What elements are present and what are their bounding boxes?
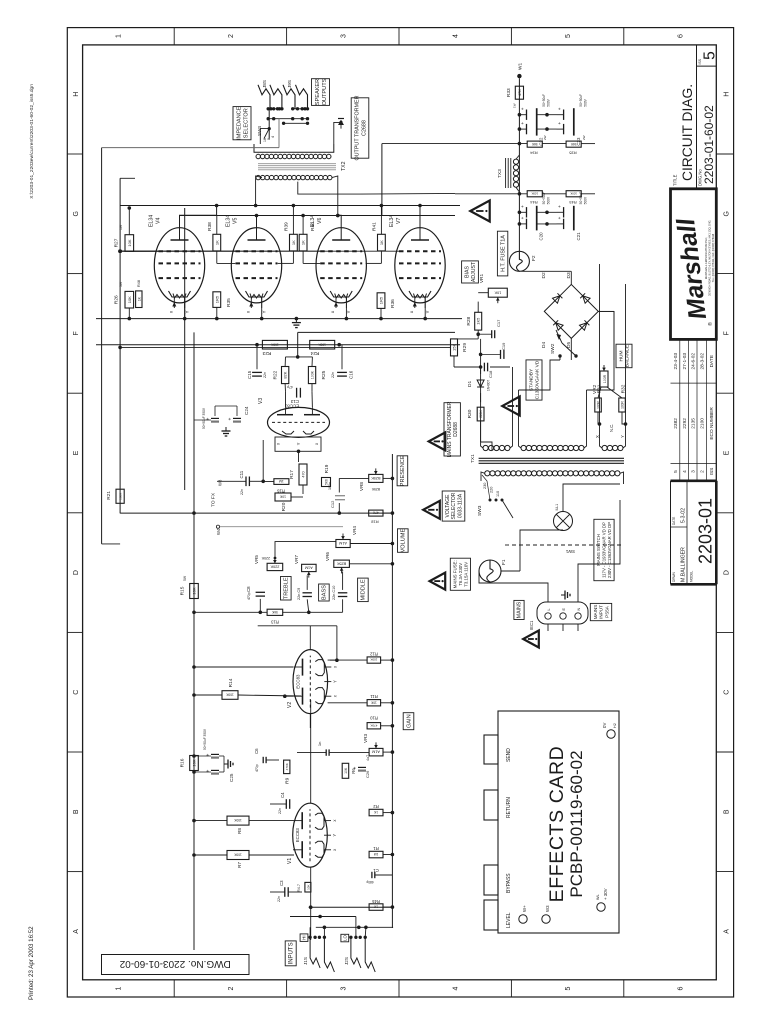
bridge wires <box>570 271 572 284</box>
capacitor C13 47p <box>296 388 298 398</box>
svg-text:500V: 500V <box>584 196 588 204</box>
treble pot VR5 220K <box>267 563 283 570</box>
svg-text:PCBP-00119-60-02: PCBP-00119-60-02 <box>567 750 586 897</box>
svg-text:100K: 100K <box>270 342 278 346</box>
svg-text:4: 4 <box>453 34 460 38</box>
svg-text:R28: R28 <box>466 316 472 325</box>
diode D1 <box>477 380 484 387</box>
svg-text:500V: 500V <box>584 98 588 106</box>
svg-text:G: G <box>73 211 80 216</box>
svg-text:R9: R9 <box>285 777 291 783</box>
capacitor C6 470p <box>262 757 264 763</box>
svg-text:4: 4 <box>682 470 688 473</box>
bridge rectifier D2-D5 <box>544 284 598 338</box>
grid bias feed stubs <box>120 250 158 252</box>
valve V2 ECC83 <box>293 650 328 714</box>
svg-text:R34: R34 <box>530 151 538 156</box>
resistor R32 100R <box>619 398 626 412</box>
resistor R16 1M <box>274 479 289 485</box>
svg-text:DATE: DATE <box>709 355 715 367</box>
svg-text:MAINS: MAINS <box>517 601 523 618</box>
resistor R1 1M <box>369 851 383 858</box>
svg-text:C8: C8 <box>246 586 251 592</box>
svg-text:DWG.No. 2203-01-60-02: DWG.No. 2203-01-60-02 <box>119 958 231 969</box>
resistor R2 1K <box>369 809 383 816</box>
svg-text:1: 1 <box>116 34 123 38</box>
warning triangle presence-side <box>423 501 440 519</box>
TX2 secondary bracket <box>254 144 334 152</box>
svg-text:R10: R10 <box>369 716 377 721</box>
mains switch SW1 dashed link <box>505 544 624 546</box>
svg-text:C25: C25 <box>229 773 234 782</box>
V2 pin wires <box>328 659 368 661</box>
svg-text:3: 3 <box>340 986 347 990</box>
label box MAINS SWITCH <box>594 519 614 580</box>
svg-text:A1M: A1M <box>372 750 380 754</box>
svg-text:SW3: SW3 <box>477 505 483 516</box>
svg-text:A1M: A1M <box>305 566 313 570</box>
svg-text:H: H <box>724 92 731 97</box>
capacitor C3 22n <box>284 887 286 897</box>
standby switch SW2 <box>558 354 561 357</box>
svg-text:x: x <box>332 819 337 822</box>
HT riser resistors R34 R35 <box>527 141 542 147</box>
svg-text:470K: 470K <box>285 763 289 770</box>
svg-text:5: 5 <box>702 51 719 60</box>
svg-text:x: x <box>332 848 337 851</box>
svg-text:DRWN: DRWN <box>672 571 676 582</box>
TX1 heater wires <box>599 264 601 424</box>
svg-text:W3: W3 <box>218 479 223 486</box>
svg-text:10K: 10K <box>192 587 197 594</box>
resistor R14 100K <box>222 691 238 700</box>
middle pot VR6 B25K <box>334 560 350 567</box>
presence pot VR8 <box>369 474 383 482</box>
svg-text:C13: C13 <box>290 399 299 404</box>
svg-text:ECC83: ECC83 <box>295 674 300 689</box>
svg-text:A: A <box>73 929 80 934</box>
aux heater line <box>184 208 186 490</box>
svg-text:1K: 1K <box>214 240 219 245</box>
svg-text:C15: C15 <box>247 370 252 379</box>
HT fuse F2 <box>509 251 529 271</box>
title block drawn/model box 2203-01 <box>671 583 717 586</box>
pad W1 <box>517 74 521 78</box>
TX1 secondary windings <box>483 445 488 450</box>
svg-text:5: 5 <box>565 34 572 38</box>
svg-text:R45: R45 <box>371 899 379 904</box>
svg-text:1M: 1M <box>373 852 378 856</box>
svg-text:TO FX: TO FX <box>211 492 217 507</box>
resistor R45 1K <box>369 904 383 911</box>
label box IMPEDANCE SELECTOR <box>233 107 251 140</box>
svg-text:F: F <box>724 331 731 335</box>
label box OUTPUT TRANSFORMER C2688 <box>351 98 369 158</box>
svg-text:50+50uF: 50+50uF <box>579 94 583 107</box>
capacitors C20 C21 50+50uF 500V <box>519 211 526 213</box>
svg-text:1K: 1K <box>291 240 296 245</box>
phase splitter V3 ECC83 <box>268 407 330 437</box>
svg-text:+: + <box>353 766 359 769</box>
presence node line <box>120 512 392 514</box>
svg-text:R17: R17 <box>289 470 295 479</box>
svg-text:R15: R15 <box>180 586 186 595</box>
label box MIDDLE <box>358 578 369 602</box>
tone stack wires <box>259 599 261 612</box>
svg-text:110: 110 <box>496 491 500 497</box>
svg-text:V4: V4 <box>156 218 162 224</box>
tone to V2 wire <box>258 625 337 627</box>
svg-text:Y: Y <box>185 310 190 313</box>
svg-text:VR1: VR1 <box>479 274 485 284</box>
capacitor C17 <box>491 330 493 338</box>
DWG number box left edge <box>102 955 250 975</box>
svg-text:A: A <box>724 929 731 934</box>
svg-text:22n: 22n <box>263 372 267 378</box>
svg-text:10K: 10K <box>494 290 501 294</box>
svg-text:27-1-03: 27-1-03 <box>682 353 688 370</box>
svg-text:100K: 100K <box>119 493 123 500</box>
svg-text:R23: R23 <box>262 350 271 356</box>
svg-text:MODEL: MODEL <box>690 570 694 582</box>
capacitor C9 22n <box>303 596 312 598</box>
svg-text:50+50uF: 50+50uF <box>542 94 546 107</box>
svg-text:10K: 10K <box>127 239 132 246</box>
svg-text:ADJUST: ADJUST <box>471 261 477 282</box>
resistor R18 47K <box>369 510 383 516</box>
svg-text:2W: 2W <box>543 135 547 140</box>
svg-text:2135: 2135 <box>691 418 697 429</box>
svg-text:3: 3 <box>691 470 697 473</box>
svg-text:C1350VGAAK VD: C1350VGAAK VD <box>535 360 541 399</box>
capacitor C4 22n <box>285 799 287 809</box>
svg-text:x: x <box>314 442 319 445</box>
svg-text:N.C.: N.C. <box>609 424 614 432</box>
TX2 core <box>258 169 336 171</box>
svg-text:R40: R40 <box>310 222 316 231</box>
svg-text:2100: 2100 <box>700 418 706 429</box>
svg-text:R35: R35 <box>569 151 577 156</box>
svg-text:Printed: 23 Apr 2003 16:52: Printed: 23 Apr 2003 16:52 <box>28 926 35 1000</box>
svg-text:G: G <box>724 211 731 216</box>
svg-text:1K: 1K <box>137 296 141 301</box>
svg-text:R27: R27 <box>113 238 119 247</box>
svg-text:H: H <box>73 92 80 97</box>
svg-text:EFFECTS CARD: EFFECTS CARD <box>546 746 568 903</box>
svg-text:R19: R19 <box>324 464 330 473</box>
svg-text:L: L <box>547 608 551 610</box>
svg-text:5W: 5W <box>119 281 123 287</box>
svg-text:V3: V3 <box>258 398 264 404</box>
svg-text:2: 2 <box>228 986 235 990</box>
volume pot VR4 <box>336 540 350 548</box>
svg-text:R44: R44 <box>530 200 538 205</box>
resistor R16b 10K <box>190 756 199 771</box>
svg-text:x: x <box>409 310 414 313</box>
svg-text:R41: R41 <box>371 222 377 231</box>
speaker jack J8S <box>258 85 270 109</box>
svg-text:ILL1: ILL1 <box>555 504 559 511</box>
svg-text:R26: R26 <box>113 295 119 304</box>
svg-text:2382: 2382 <box>673 418 679 429</box>
svg-text:F1: F1 <box>501 559 507 565</box>
anode lead V5 <box>256 216 258 241</box>
svg-text:2: 2 <box>228 34 235 38</box>
svg-text:C20: C20 <box>539 232 544 241</box>
feedback line <box>392 512 430 514</box>
svg-text:ECC83: ECC83 <box>284 404 299 409</box>
svg-text:100R: 100R <box>621 400 625 408</box>
svg-text:C1: C1 <box>373 868 379 873</box>
svg-text:TX1: TX1 <box>470 454 476 463</box>
svg-text:117V - C1933VGNAR VD DP: 117V - C1933VGNAR VD DP <box>602 522 607 578</box>
label box MAINS INPUT PS5A <box>590 603 611 620</box>
svg-text:220K: 220K <box>261 556 270 560</box>
svg-text:J9S: J9S <box>287 80 292 88</box>
mains fuse F1 <box>479 560 501 582</box>
svg-text:10K: 10K <box>279 495 286 499</box>
CT riser resistors R44 R45 <box>527 191 542 197</box>
TX1 HT secondary wires <box>519 360 561 390</box>
svg-text:V2: V2 <box>287 702 293 708</box>
svg-text:SELECTOR: SELECTOR <box>451 492 457 519</box>
power pentode V6 EL34 <box>316 228 366 303</box>
warning triangle voltage selector <box>429 432 446 450</box>
capacitor C16 22n <box>337 375 347 377</box>
svg-text:x: x <box>332 694 337 697</box>
title block Marshall logo <box>671 189 717 340</box>
svg-text:+: + <box>557 205 562 208</box>
label box VOLTAGE SELECTOR <box>442 491 465 521</box>
svg-text:C26: C26 <box>365 770 370 778</box>
svg-text:Y: Y <box>425 310 430 313</box>
svg-text:ECO NUMBER: ECO NUMBER <box>709 407 715 440</box>
svg-text:10K: 10K <box>127 296 132 303</box>
svg-text:R14: R14 <box>228 678 234 687</box>
svg-text:R18: R18 <box>371 520 379 525</box>
svg-text:R36: R36 <box>390 299 396 308</box>
svg-text:BASS: BASS <box>322 585 328 600</box>
svg-text:B: B <box>724 809 731 814</box>
svg-text:x: x <box>276 442 281 445</box>
capacitor C25 50+50uF <box>211 772 219 774</box>
resistor R10 470K <box>367 723 381 729</box>
svg-text:+: + <box>520 216 525 219</box>
svg-text:R13: R13 <box>270 620 278 625</box>
svg-text:+: + <box>228 417 234 420</box>
svg-text:Y: Y <box>262 310 267 313</box>
svg-text:LO: LO <box>342 934 347 940</box>
resistor R40 1K <box>299 234 307 251</box>
svg-text:100K: 100K <box>318 342 326 346</box>
label box MAINS TRANSFORMER <box>444 403 460 456</box>
svg-text:Y: Y <box>296 442 301 445</box>
effects card pad W+ <box>519 915 527 923</box>
svg-text:Y: Y <box>620 435 625 438</box>
svg-text:RETURN: RETURN <box>506 797 512 818</box>
label box BASS <box>319 584 330 601</box>
svg-text:VOLTAGE: VOLTAGE <box>445 494 451 518</box>
svg-text:D: D <box>724 570 731 575</box>
effects card pad H2 0V <box>607 730 615 738</box>
svg-text:1R5: 1R5 <box>379 296 384 304</box>
svg-text:C4: C4 <box>280 792 285 798</box>
svg-text:100R: 100R <box>603 374 607 383</box>
resistor R13 56K <box>267 609 283 615</box>
cathode resistor R36 <box>377 293 385 309</box>
power pentode V4 EL34 <box>154 228 204 303</box>
V3 pin box <box>275 437 321 451</box>
TX2 primary centre tap <box>298 182 455 195</box>
HT feed line <box>518 78 520 251</box>
svg-text:B25K: B25K <box>371 476 381 480</box>
svg-text:100R: 100R <box>597 400 601 408</box>
svg-text:W3: W3 <box>545 905 550 912</box>
svg-text:R35: R35 <box>226 298 232 307</box>
svg-text:MAINS FUSE:: MAINS FUSE: <box>453 560 458 588</box>
svg-text:220K: 220K <box>270 565 279 569</box>
TX1 bias tap wire <box>491 430 493 450</box>
valve V1 ECC83 <box>293 803 328 867</box>
resistor R8 100K <box>227 816 249 825</box>
V2 grid line <box>309 626 311 650</box>
svg-text:V6: V6 <box>317 218 323 224</box>
mains wiring <box>501 570 520 572</box>
svg-text:Y: Y <box>332 834 337 837</box>
gain node wires <box>266 759 279 761</box>
svg-text:R2: R2 <box>373 804 379 809</box>
svg-text:C19: C19 <box>501 342 506 350</box>
resistor R33 47K <box>515 86 523 99</box>
svg-text:C: C <box>724 690 731 695</box>
svg-text:24-6-02: 24-6-02 <box>691 353 697 370</box>
anode lead V7 <box>419 206 421 241</box>
svg-text:+: + <box>520 205 525 208</box>
svg-text:R25: R25 <box>321 370 327 379</box>
svg-text:SEND: SEND <box>506 748 512 762</box>
svg-text:22n: 22n <box>277 896 281 902</box>
resistor R11 10K <box>367 700 381 706</box>
svg-text:10K: 10K <box>192 759 197 766</box>
svg-text:C16: C16 <box>349 370 354 379</box>
capacitors C22 C23 50+50uF 500V <box>519 114 526 116</box>
svg-text:J2S: J2S <box>344 957 349 965</box>
label box SPEAKER OUTPUTS <box>312 79 330 106</box>
svg-text:H.T. FUSE T1A: H.T. FUSE T1A <box>500 235 506 272</box>
svg-text:+: + <box>557 107 562 110</box>
label box PRESENCE <box>397 456 408 486</box>
svg-text:SPEAKER: SPEAKER <box>315 79 321 105</box>
svg-text:D2688: D2688 <box>453 422 459 437</box>
svg-text:10K: 10K <box>344 767 348 774</box>
input line A <box>290 916 356 918</box>
svg-text:470: 470 <box>302 471 306 477</box>
svg-text:R33: R33 <box>506 88 512 97</box>
resistor R19 5K6 <box>322 478 331 487</box>
svg-text:TEL: (01908) 375411, FAX: (01: TEL: (01908) 375411, FAX: (01908) 376118 <box>712 233 715 282</box>
resistor R28 1K5 <box>475 312 482 330</box>
svg-text:2203-01-60-02: 2203-01-60-02 <box>702 105 716 184</box>
anode HT rail B <box>179 215 455 217</box>
svg-text:TX3: TX3 <box>497 169 503 178</box>
label box INPUTS <box>285 941 296 966</box>
svg-text:V5: V5 <box>233 218 239 224</box>
svg-text:47K: 47K <box>517 89 522 96</box>
bias feed line 1 <box>101 148 103 544</box>
svg-text:5: 5 <box>565 986 572 990</box>
svg-text:0V: 0V <box>602 723 607 728</box>
svg-text:2203-01: 2203-01 <box>696 498 716 564</box>
svg-text:R8: R8 <box>237 828 242 834</box>
svg-text:1n: 1n <box>317 742 322 746</box>
resistor R25 100K <box>308 367 315 384</box>
impedance selector switch SW4 <box>268 109 270 139</box>
choke TX3 <box>513 182 518 187</box>
svg-text:TREBLE: TREBLE <box>284 577 290 599</box>
svg-text:1: 1 <box>116 986 123 990</box>
resistor R24 100K <box>310 340 335 349</box>
bias pot VR1 10K <box>488 288 507 297</box>
svg-text:C: C <box>73 690 80 695</box>
label box LO <box>341 934 349 942</box>
svg-text:8: 8 <box>267 138 271 140</box>
capacitor C10 22n <box>338 596 347 598</box>
svg-text:47p: 47p <box>287 385 293 389</box>
svg-text:D1: D1 <box>467 381 473 387</box>
svg-text:Y: Y <box>332 680 337 683</box>
svg-text:+: + <box>520 122 525 125</box>
svg-text:H2: H2 <box>613 723 617 728</box>
svg-text:HUM: HUM <box>619 351 625 362</box>
HT riser top <box>381 144 383 216</box>
resistor R38 1K <box>213 234 221 251</box>
V1 grid line <box>310 867 312 940</box>
svg-text:+ 30V: + 30V <box>603 888 608 900</box>
resistor R26 10K <box>125 291 134 308</box>
svg-text:B25K: B25K <box>336 561 346 565</box>
svg-text:1K5: 1K5 <box>476 317 481 325</box>
svg-text:SELECTOR: SELECTOR <box>244 108 250 138</box>
resistor R7 100K <box>227 851 249 860</box>
label box STANDBY <box>526 360 542 400</box>
svg-text:470p: 470p <box>247 592 251 600</box>
svg-text:R7: R7 <box>237 862 242 868</box>
resistor R29 15K <box>451 339 458 356</box>
resistor R12 100K <box>367 657 381 663</box>
effects card module <box>498 711 619 933</box>
svg-text:C17: C17 <box>496 319 501 327</box>
resistor R9 470K <box>284 760 290 774</box>
svg-text:W1: W1 <box>518 62 524 70</box>
svg-text:R30: R30 <box>467 409 473 418</box>
label box VOLUME <box>398 529 409 553</box>
V2 anode leads <box>285 695 293 697</box>
capacitor C26 4u7 <box>358 769 366 771</box>
signal rail <box>391 454 393 928</box>
svg-text:500V: 500V <box>547 196 551 204</box>
svg-text:230V - C1363VGNAR VD DP: 230V - C1363VGNAR VD DP <box>607 522 612 578</box>
svg-text:MAINS: MAINS <box>593 605 598 620</box>
svg-text:VR3: VR3 <box>363 734 368 743</box>
svg-text:N: N <box>577 608 581 611</box>
svg-text:VOLUME: VOLUME <box>401 529 407 553</box>
cathode resistor R35 <box>213 292 221 308</box>
label box TREBLE <box>281 577 292 601</box>
capacitor C7 1n <box>325 749 327 755</box>
title block TITLE CIRCUIT DIAG / DWG No <box>671 188 717 190</box>
label box BIAS ADJUST <box>462 261 479 283</box>
svg-text:TX2: TX2 <box>341 161 347 171</box>
